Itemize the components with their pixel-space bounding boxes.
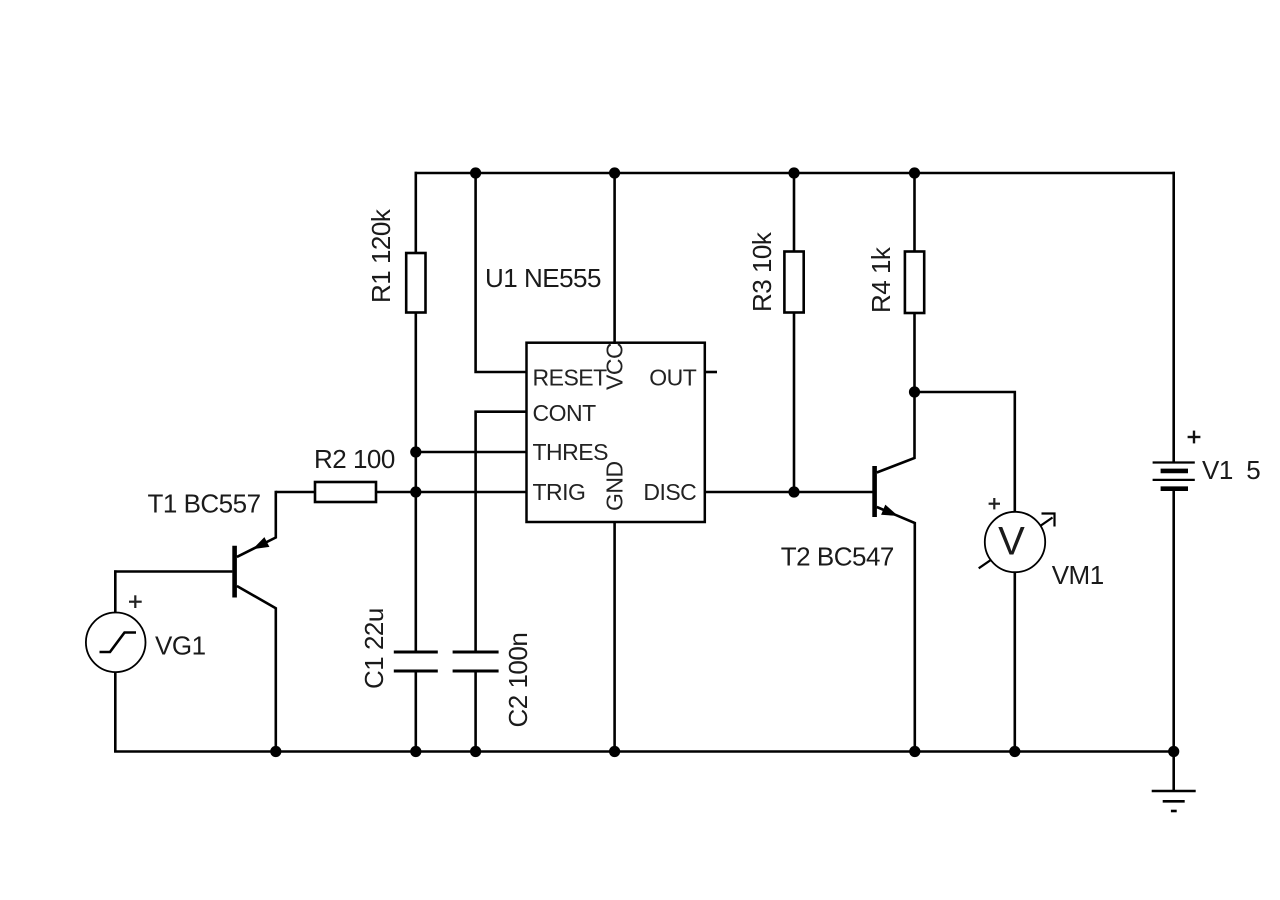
- node top rail junction 4: [909, 167, 920, 178]
- svg-text:VM1: VM1: [1052, 560, 1104, 590]
- svg-text:R4 1k: R4 1k: [866, 246, 896, 313]
- voltmeter VM1 circle: [985, 512, 1045, 572]
- wire node to voltmeter: [915, 392, 1015, 512]
- wire V1 bottom: [1172, 489, 1175, 753]
- wire R3 top riser: [793, 172, 796, 253]
- resistor R2: [315, 482, 376, 502]
- node bottom rail junction 5: [909, 746, 920, 757]
- svg-text:GND: GND: [602, 461, 628, 511]
- svg-text:DISC: DISC: [643, 479, 696, 505]
- node top rail junction 1: [470, 167, 481, 178]
- wire R1 top riser: [414, 172, 417, 254]
- wire DISC: [705, 491, 873, 494]
- plus sign VG1: [129, 595, 142, 608]
- wire VG1 bottom: [114, 672, 117, 752]
- wire R1 bottom to C1: [414, 313, 417, 651]
- svg-text:R1 120k: R1 120k: [366, 208, 396, 303]
- wire T2 emitter: [877, 507, 915, 753]
- plus sign V1: [1188, 431, 1201, 444]
- wire THRES: [416, 451, 527, 454]
- svg-text:U1 NE555: U1 NE555: [485, 263, 601, 293]
- node bottom rail junction 3: [470, 746, 481, 757]
- svg-text:RESET: RESET: [533, 364, 608, 390]
- transistor Q2 base bar: [872, 466, 877, 517]
- wire GND drop: [613, 521, 616, 753]
- wire CONT to C2: [476, 412, 527, 651]
- svg-text:VCC: VCC: [602, 343, 628, 390]
- plus sign VM1: [989, 498, 1000, 509]
- node collector junction: [909, 386, 920, 397]
- svg-text:THRES: THRES: [533, 439, 609, 465]
- node bottom rail junction 2: [410, 746, 421, 757]
- source VG1 circle: [86, 613, 146, 673]
- node THRES junction: [410, 446, 421, 457]
- node top rail junction 3: [788, 167, 799, 178]
- node bottom rail junction 6: [1009, 746, 1020, 757]
- svg-text:TRIG: TRIG: [533, 479, 586, 505]
- battery V1: [1153, 463, 1195, 489]
- node bottom rail junction 4: [609, 746, 620, 757]
- wire R2 right to TRIG: [376, 491, 527, 494]
- svg-text:VG1: VG1: [155, 631, 206, 661]
- resistor R1: [406, 253, 425, 313]
- wire top rail: [415, 172, 1175, 175]
- node DISC junction: [788, 486, 799, 497]
- wire R2 left: [276, 491, 316, 494]
- wire VCC riser: [613, 172, 616, 344]
- node TRIG junction: [410, 486, 421, 497]
- svg-text:R2 100: R2 100: [314, 444, 395, 474]
- resistor R3: [784, 252, 803, 313]
- wire VG1 top: [114, 570, 117, 612]
- svg-text:OUT: OUT: [649, 364, 697, 390]
- wire R4 top riser: [913, 172, 916, 253]
- svg-text:V: V: [998, 520, 1025, 564]
- wire R4 bottom: [913, 313, 916, 393]
- capacitor C2: [453, 652, 499, 671]
- transistor Q1 base bar: [232, 546, 237, 598]
- wire RESET riser: [476, 172, 527, 372]
- svg-text:R3 10k: R3 10k: [747, 231, 777, 312]
- voltmeter VM1 arrow: [979, 514, 1055, 569]
- ground: [1152, 752, 1196, 812]
- node bottom rail junction 1: [270, 746, 281, 757]
- wire T1 emitter: [237, 491, 276, 557]
- node top rail junction 2: [609, 167, 620, 178]
- svg-text:C1 22u: C1 22u: [359, 608, 389, 689]
- node bottom rail junction 7: [1168, 746, 1179, 757]
- wire R3 bottom: [793, 313, 796, 493]
- svg-text:T1 BC557: T1 BC557: [148, 489, 261, 519]
- transistor Q2 emitter arrow: [881, 505, 898, 516]
- svg-text:T2 BC547: T2 BC547: [781, 541, 894, 571]
- wire C2 to bottom rail: [474, 673, 477, 753]
- wire T2 collector: [877, 392, 915, 473]
- resistor R4: [905, 252, 924, 314]
- capacitor C1: [394, 652, 438, 671]
- source VG1 ramp symbol: [100, 633, 137, 653]
- wire C1 to bottom rail: [414, 673, 417, 753]
- op-amp U1 box: [527, 343, 705, 522]
- wire T1 collector: [237, 586, 276, 753]
- wire bottom rail: [114, 750, 1175, 753]
- svg-text:CONT: CONT: [533, 400, 597, 426]
- svg-text:V1 5: V1 5: [1202, 455, 1260, 485]
- wire OUT stub: [705, 371, 717, 374]
- svg-text:C2 100n: C2 100n: [503, 633, 533, 728]
- wire V1 top drop: [1172, 172, 1175, 463]
- wire T1 base: [114, 570, 232, 573]
- wire VM1 bottom: [1013, 573, 1016, 753]
- transistor Q1 emitter arrow: [253, 537, 270, 549]
